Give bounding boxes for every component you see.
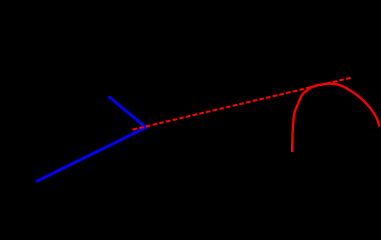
- red trajectory curve: [292, 84, 379, 152]
- blue bent line (velocity vector pair): [36, 96, 146, 181]
- red dashed tangent line: [133, 78, 351, 130]
